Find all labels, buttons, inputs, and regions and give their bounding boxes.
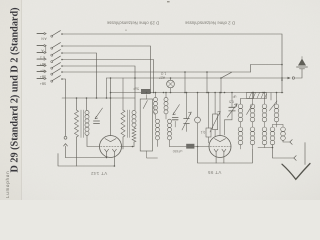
svg-text:D 29 ohne Netzanschlusse: D 29 ohne Netzanschlusse xyxy=(106,21,159,26)
svg-text:E 1: E 1 xyxy=(40,56,45,60)
svg-text:D 2 ohne Netzanschlusse: D 2 ohne Netzanschlusse xyxy=(184,21,235,26)
svg-text:1: 1 xyxy=(153,111,155,115)
svg-text:A27: A27 xyxy=(159,76,165,80)
svg-text:0,1: 0,1 xyxy=(201,130,206,134)
svg-text:SB+: SB+ xyxy=(40,62,46,66)
svg-text:D 29 (Standard 2) und D 2 (Sta: D 29 (Standard 2) und D 2 (Standard) xyxy=(10,7,21,172)
svg-text:uF450: uF450 xyxy=(173,149,183,153)
svg-text:1 O: 1 O xyxy=(160,72,166,76)
svg-text:VT 95: VT 95 xyxy=(208,170,222,175)
svg-text:uF: uF xyxy=(233,95,237,99)
svg-text:VT 142: VT 142 xyxy=(91,171,108,176)
svg-text:SB+: SB+ xyxy=(40,75,46,79)
svg-text:0,5: 0,5 xyxy=(229,100,234,104)
svg-text:A N: A N xyxy=(41,37,47,41)
svg-text:4V+: 4V+ xyxy=(40,69,46,73)
svg-text:SB+: SB+ xyxy=(40,82,46,86)
svg-text:5uF: 5uF xyxy=(133,86,139,90)
svg-text:Lumophon: Lumophon xyxy=(5,170,10,198)
